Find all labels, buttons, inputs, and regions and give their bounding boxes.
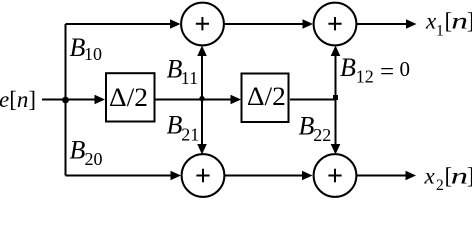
svg-text:e[n]: e[n] [0, 87, 36, 112]
svg-text:20: 20 [85, 149, 103, 169]
svg-text:10: 10 [84, 44, 102, 64]
svg-text:2: 2 [436, 177, 444, 194]
svg-text:Δ/2: Δ/2 [247, 82, 286, 111]
svg-text:0: 0 [400, 57, 411, 81]
svg-text:n: n [451, 164, 468, 189]
svg-text:12: 12 [356, 66, 374, 86]
svg-text:22: 22 [313, 125, 331, 145]
svg-text:11: 11 [181, 68, 198, 88]
svg-text:]: ] [467, 164, 472, 189]
svg-text:1: 1 [436, 22, 444, 39]
svg-text:Δ/2: Δ/2 [109, 83, 148, 112]
svg-text:=: = [380, 59, 394, 86]
svg-text:B: B [299, 112, 315, 141]
svg-text:]: ] [467, 9, 472, 34]
svg-text:B: B [340, 53, 356, 82]
svg-text:B: B [70, 136, 86, 165]
svg-text:B: B [167, 111, 183, 140]
svg-text:n: n [451, 8, 468, 34]
svg-text:21: 21 [181, 124, 199, 144]
svg-text:x: x [424, 164, 436, 189]
